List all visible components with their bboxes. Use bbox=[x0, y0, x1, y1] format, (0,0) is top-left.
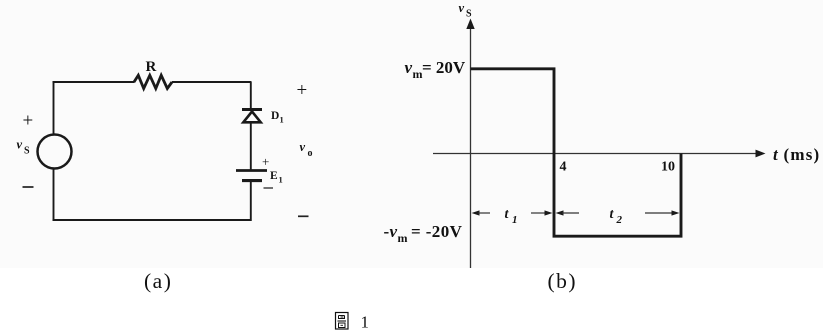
waveform square wave bbox=[471, 69, 682, 236]
svg-text:v: v bbox=[300, 140, 306, 154]
svg-text:1: 1 bbox=[279, 175, 283, 185]
label vS axis bbox=[459, 1, 473, 20]
wire top left bbox=[53, 81, 135, 83]
dimension t1 bbox=[472, 210, 553, 215]
label t (ms) bbox=[773, 145, 820, 164]
svg-text:(ms): (ms) bbox=[784, 145, 821, 164]
label vS bbox=[17, 138, 31, 157]
svg-text:(a): (a) bbox=[144, 269, 172, 293]
svg-text:= 20V: = 20V bbox=[422, 58, 466, 77]
svg-text:(b): (b) bbox=[548, 269, 578, 293]
label E1 bbox=[270, 170, 283, 185]
battery E1 bbox=[236, 171, 267, 181]
label t1 bbox=[505, 207, 518, 226]
svg-text:+: + bbox=[23, 111, 34, 132]
source minus bbox=[23, 186, 34, 188]
wire diode to battery bbox=[250, 122, 252, 169]
svg-text:1: 1 bbox=[280, 115, 284, 125]
svg-text:m: m bbox=[398, 231, 408, 245]
svg-text:+: + bbox=[262, 154, 269, 169]
wire bottom bbox=[53, 219, 252, 221]
svg-text:2: 2 bbox=[616, 214, 623, 226]
source VS circle bbox=[38, 135, 72, 169]
svg-text:o: o bbox=[308, 148, 313, 159]
caption figure 1 (圖 1) bbox=[336, 313, 370, 331]
svg-text:R: R bbox=[146, 59, 157, 75]
x-axis arrowhead bbox=[756, 150, 766, 158]
svg-text:4: 4 bbox=[560, 160, 567, 175]
svg-text:S: S bbox=[466, 9, 472, 20]
y-axis arrowhead bbox=[466, 19, 474, 30]
label t2 bbox=[610, 207, 623, 226]
svg-text:E: E bbox=[270, 170, 278, 182]
svg-text:D: D bbox=[271, 110, 279, 122]
svg-text:10: 10 bbox=[661, 160, 675, 175]
battery minus bbox=[264, 187, 274, 189]
resistor R bbox=[134, 75, 172, 88]
dimension t2 bbox=[556, 210, 680, 215]
svg-text:v: v bbox=[390, 222, 398, 241]
diode D1 bbox=[242, 110, 262, 123]
x-axis bbox=[433, 153, 758, 155]
svg-text:v: v bbox=[405, 58, 413, 77]
wire battery to bottom bbox=[250, 181, 252, 221]
wire top right bbox=[172, 81, 252, 83]
label -vm = -20V bbox=[384, 222, 463, 245]
wire right rail upper bbox=[250, 82, 252, 109]
svg-text:v: v bbox=[17, 138, 23, 152]
svg-text:1: 1 bbox=[512, 214, 518, 226]
label vo bbox=[300, 140, 313, 159]
svg-text:+: + bbox=[297, 80, 308, 101]
svg-text:= -20V: = -20V bbox=[411, 222, 463, 241]
label vm = 20V bbox=[405, 58, 466, 81]
svg-text:1: 1 bbox=[361, 313, 370, 331]
label D1 bbox=[271, 110, 284, 125]
svg-text:m: m bbox=[413, 67, 423, 81]
svg-text:v: v bbox=[459, 1, 465, 15]
wire left rail lower bbox=[53, 169, 55, 222]
output minus bbox=[298, 215, 309, 217]
wire left rail upper bbox=[53, 82, 55, 135]
y-axis bbox=[470, 26, 472, 268]
svg-text:S: S bbox=[24, 146, 30, 157]
